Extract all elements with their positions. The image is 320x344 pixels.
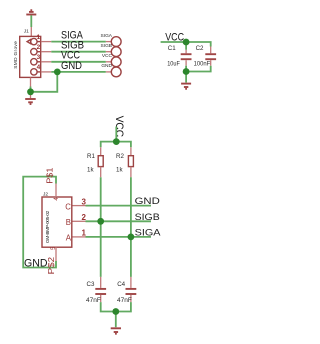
svg-text:A: A <box>66 233 72 242</box>
svg-text:J2: J2 <box>43 192 48 198</box>
svg-text:SIGA: SIGA <box>135 228 161 238</box>
svg-text:4: 4 <box>53 197 60 201</box>
svg-text:47nF: 47nF <box>117 297 132 304</box>
svg-text:SIGA: SIGA <box>101 33 113 39</box>
svg-text:GND: GND <box>135 196 161 206</box>
svg-text:C1: C1 <box>168 45 176 52</box>
svg-text:P$2: P$2 <box>47 256 56 274</box>
svg-text:GM-BMP-005-02: GM-BMP-005-02 <box>45 210 51 243</box>
svg-text:1k: 1k <box>116 167 123 174</box>
svg-text:1: 1 <box>37 34 41 41</box>
svg-text:GND: GND <box>61 60 82 72</box>
svg-text:C: C <box>65 202 71 211</box>
svg-text:C2: C2 <box>196 45 204 52</box>
svg-text:100nF: 100nF <box>194 60 211 67</box>
svg-text:2: 2 <box>37 44 41 51</box>
svg-text:47nF: 47nF <box>86 297 101 304</box>
svg-text:5: 5 <box>50 246 57 250</box>
svg-text:GND: GND <box>24 257 48 269</box>
svg-text:10uF: 10uF <box>167 60 180 67</box>
svg-text:B: B <box>66 218 71 227</box>
svg-text:C4: C4 <box>117 281 125 288</box>
svg-text:R2: R2 <box>116 153 124 160</box>
svg-text:GND: GND <box>101 63 112 69</box>
svg-text:4: 4 <box>37 64 41 71</box>
svg-text:SIGB: SIGB <box>101 43 112 49</box>
svg-text:1: 1 <box>81 228 86 237</box>
svg-text:2: 2 <box>81 213 86 222</box>
svg-text:SIGB: SIGB <box>135 212 160 222</box>
svg-text:R1: R1 <box>87 153 95 160</box>
svg-text:VCC: VCC <box>102 53 113 59</box>
svg-text:SMD Grove: SMD Grove <box>13 41 19 69</box>
svg-text:P$1: P$1 <box>46 167 55 184</box>
svg-text:C3: C3 <box>87 281 95 288</box>
svg-text:VCC: VCC <box>113 116 125 137</box>
svg-text:1k: 1k <box>87 167 94 174</box>
svg-text:J1: J1 <box>24 28 29 34</box>
svg-text:3: 3 <box>37 54 41 61</box>
svg-text:3: 3 <box>81 197 86 206</box>
